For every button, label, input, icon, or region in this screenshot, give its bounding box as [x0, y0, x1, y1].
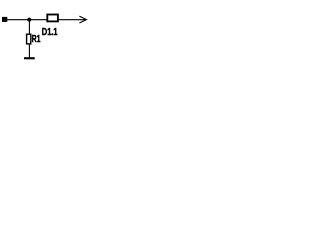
- wire: resistor to ground: [28, 45, 30, 58]
- svg-text:D1.1: D1.1: [42, 27, 58, 38]
- node junction dot: [27, 18, 31, 22]
- gate box D1.1: [47, 15, 58, 22]
- output arrow head: [79, 16, 86, 23]
- input terminal (filled square): [2, 17, 7, 22]
- ground bar: [24, 57, 35, 59]
- svg-text:R1: R1: [32, 34, 41, 45]
- wire: junction down to resistor R1: [28, 20, 30, 34]
- resistor R1 (box symbol): [27, 34, 31, 44]
- wire: terminal to box D1.1: [7, 19, 47, 21]
- wire: box D1.1 to output arrow: [59, 19, 86, 21]
